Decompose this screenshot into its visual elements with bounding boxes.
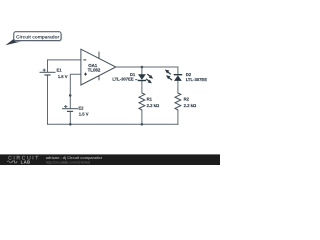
svg-text:E2: E2 <box>78 106 84 111</box>
LED D2 <box>165 70 182 81</box>
battery E2 <box>62 105 78 111</box>
LED D1 <box>138 74 153 83</box>
op-amp U1 triangle <box>81 49 116 85</box>
svg-text:TL082: TL082 <box>88 67 101 72</box>
D1 emission arrow 1 <box>147 74 151 77</box>
svg-text:adriann : dj Circuit comparado: adriann : dj Circuit comparador <box>46 156 103 160</box>
node: wire joint on E2 branch <box>69 94 72 97</box>
svg-text:LTL-307EE: LTL-307EE <box>112 77 134 82</box>
wire: op-amp inverting input to E1 top <box>48 60 81 72</box>
E1 plus marker <box>43 69 46 71</box>
svg-text:LTL-307EE: LTL-307EE <box>186 77 208 82</box>
node: output junction at D1 column <box>141 66 144 69</box>
svg-text:R2: R2 <box>184 97 190 102</box>
wire: D2 cathode lead <box>177 67 179 74</box>
wire: D2 anode to R2 <box>177 81 179 93</box>
svg-text:1.5 V: 1.5 V <box>58 74 68 79</box>
svg-text:2.2 kΩ: 2.2 kΩ <box>147 103 160 108</box>
D2 emission arrow 2 <box>168 77 172 80</box>
wire: E1 bottom to bottom rail <box>47 75 49 124</box>
wire: D1 anode lead <box>141 67 143 74</box>
op-amp minus input marker <box>83 59 86 61</box>
svg-text:Circuit comparador: Circuit comparador <box>16 34 59 39</box>
wire: R2 to bottom rail <box>177 110 179 124</box>
D1 label dash <box>135 79 137 81</box>
wire: R1 to bottom rail <box>141 110 143 124</box>
logo waveform <box>7 161 17 163</box>
battery E1 <box>40 69 56 76</box>
svg-text:LAB: LAB <box>21 160 31 165</box>
op-amp plus input marker <box>84 73 87 75</box>
svg-text:R1: R1 <box>147 97 153 102</box>
op-amp positive supply pin <box>98 52 100 59</box>
svg-text:1.5 V: 1.5 V <box>79 112 89 117</box>
node: bottom rail junction at R1 <box>141 123 144 126</box>
footer bar <box>0 154 220 165</box>
wire: op-amp output to D2 column <box>116 66 178 68</box>
annotation bubble "Circuit comparador" <box>5 32 61 46</box>
D2 emission arrow 1 <box>167 71 171 74</box>
D1 emission arrow 2 <box>146 79 150 82</box>
svg-text:E1: E1 <box>57 68 63 73</box>
wire: E2 bottom to bottom rail <box>69 112 71 125</box>
op-amp negative supply pin <box>98 76 100 81</box>
svg-text:2.2 kΩ: 2.2 kΩ <box>184 103 197 108</box>
resistor R1 <box>139 93 145 110</box>
wire: op-amp non-inverting input to E2 top <box>70 74 81 108</box>
wire: bottom rail <box>48 123 178 125</box>
resistor R2 <box>175 93 181 110</box>
E2 plus marker <box>64 106 67 108</box>
svg-text:http://circuitlab.com/c2vb4e5: http://circuitlab.com/c2vb4e5 <box>46 161 90 165</box>
wire: D1 cathode to R1 <box>141 81 143 93</box>
node: bottom rail junction at E2 <box>69 123 72 126</box>
